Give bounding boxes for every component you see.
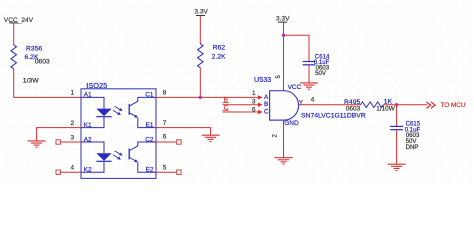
svg-text:1/3W: 1/3W [23,77,39,84]
gate input arrow C [258,110,263,114]
svg-text:Y: Y [299,99,304,106]
svg-text:U533: U533 [254,75,271,84]
no-connect square pin 6 [177,140,181,144]
wire pin 8 to gate input A [156,96,258,98]
wire pin 7 to ground [156,128,211,136]
wire pin 5 [156,171,177,173]
svg-text:50V: 50V [315,70,327,77]
AND gate U533 body [270,91,299,120]
no-connect square pin 5 [177,170,181,174]
svg-text:GND: GND [284,120,299,127]
svg-text:3.3V: 3.3V [276,15,290,22]
svg-text:R356: R356 [26,45,42,52]
wire gate GND to ground [283,120,285,158]
ground (C615) [388,164,406,170]
wire 3.3V to gate VCC [283,23,285,91]
svg-text:TO MCU: TO MCU [441,102,466,109]
power symbol 3.3V (gate) [276,15,290,22]
svg-text:B: B [264,101,268,108]
wire junction to C615 [396,105,398,127]
svg-text:A: A [264,94,269,101]
no-connect square pin 4 [56,170,60,174]
svg-text:0603: 0603 [346,105,361,112]
opto phototransistor channel 2 [129,142,156,172]
capacitor C614 [303,62,316,65]
wire R495 to TO MCU [383,104,427,106]
svg-text:1: 1 [70,89,74,96]
off-page chevrons [426,102,435,109]
svg-text:3.3V: 3.3V [194,9,208,16]
ground (gate GND) [275,158,293,164]
power symbol 3.3V (R62) [194,9,208,16]
wire net C to gate input C [223,111,258,113]
svg-text:4: 4 [70,165,74,172]
wire pin 2 to ground [37,128,81,141]
junction (R62 / pin8 net) [199,96,202,99]
wire C615 to ground [396,130,398,165]
svg-text:3: 3 [252,98,256,105]
svg-text:SN74LVC1G11DBVR: SN74LVC1G11DBVR [301,113,366,120]
ground (pin 7) [202,135,220,141]
wire C614 to ground [308,65,310,83]
ground (C614) [300,83,318,89]
svg-text:ISO25: ISO25 [86,81,107,90]
opto LED channel 2 [81,142,112,172]
gate input arrow B [258,103,263,107]
svg-text:3: 3 [70,135,74,142]
resistor R356 [11,45,17,69]
svg-text:6: 6 [163,134,167,141]
wire gate output to R495 [299,104,361,106]
resistor R495 [361,102,384,108]
wire 3.3V to R62 [199,16,201,44]
opto LED channel 1 [81,97,112,127]
light arrows channel 1 [113,106,123,115]
svg-text:R62: R62 [213,44,226,51]
svg-text:DNP: DNP [406,144,419,151]
wire pin 4 [60,171,81,173]
svg-text:C: C [264,109,269,116]
svg-text:VCC: VCC [288,84,302,91]
net label C [223,104,229,111]
svg-text:VCC_24V: VCC_24V [4,17,34,24]
wire net B to gate input B [223,104,258,106]
svg-text:4: 4 [311,96,315,103]
svg-text:2.2K: 2.2K [212,53,226,60]
power symbol VCC_24V [4,17,34,24]
net label B [223,97,229,104]
capacitor C615 [390,126,403,129]
gate input arrow A [258,95,263,99]
optocoupler ISO25 box [81,89,156,179]
svg-text:8: 8 [163,89,167,96]
light arrows channel 2 [113,151,123,160]
wire junction to C614 [284,35,310,61]
wire pin 6 [156,141,177,143]
wire VCC_24V to R356 [13,23,15,45]
svg-text:2: 2 [70,120,74,127]
wire R62 to net (junction) [199,68,201,98]
junction (R495 / C615) [395,103,398,106]
svg-text:1: 1 [252,90,256,97]
resistor R62 [198,44,204,68]
svg-text:7: 7 [163,120,167,127]
opto phototransistor channel 1 [129,97,156,127]
svg-text:1/10W: 1/10W [376,105,395,112]
svg-text:5: 5 [163,165,167,172]
no-connect square pin 3 [56,140,60,144]
svg-text:0603: 0603 [35,59,50,66]
wire pin 3 [60,141,81,143]
ground (pin 2) [28,141,46,147]
svg-text:6: 6 [252,107,256,114]
junction (3.3V / C614) [282,34,285,37]
wire R356 to ISO25 pin 1 [14,69,81,98]
